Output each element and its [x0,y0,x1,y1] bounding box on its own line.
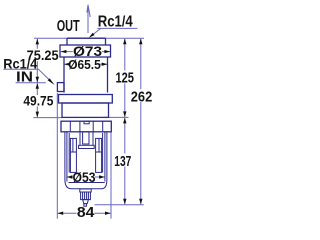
svg-text:262: 262 [131,89,153,106]
svg-text:84: 84 [77,204,95,221]
svg-text:49.75: 49.75 [23,93,53,108]
svg-text:137: 137 [114,153,131,170]
svg-text:OUT: OUT [57,18,80,35]
svg-text:Rc1/4: Rc1/4 [98,14,133,31]
svg-text:Ø53: Ø53 [73,169,96,185]
svg-text:75.25: 75.25 [27,48,59,63]
svg-text:Ø65.5: Ø65.5 [68,57,101,72]
svg-text:IN: IN [16,70,33,86]
svg-text:125: 125 [115,70,134,87]
